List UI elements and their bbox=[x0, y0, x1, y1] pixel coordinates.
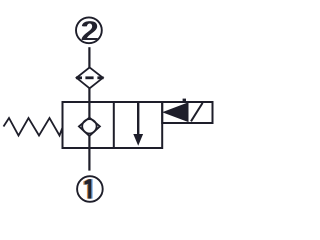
svg-text:2: 2 bbox=[81, 16, 97, 45]
orifice diamond bbox=[77, 67, 103, 88]
port circle 2 bbox=[76, 17, 102, 43]
wire: body to port 1 bbox=[88, 148, 90, 171]
solenoid terminal nub bbox=[183, 99, 186, 103]
port circle 1 bbox=[77, 176, 103, 202]
flow arrow shaft bbox=[137, 102, 139, 136]
solenoid slash bbox=[191, 103, 203, 121]
check valve ball bbox=[82, 119, 96, 133]
port 1 label bbox=[83, 179, 92, 199]
spring bbox=[4, 118, 63, 136]
valve body bbox=[63, 102, 163, 148]
check valve seat diamond bbox=[79, 118, 100, 137]
orifice dash left bbox=[76, 76, 82, 79]
orifice dash right bbox=[97, 76, 103, 79]
orifice dash center bbox=[85, 76, 93, 79]
wire into check valve bbox=[88, 102, 90, 118]
wire: port 2 to orifice bbox=[88, 47, 90, 68]
solenoid armature triangle bbox=[164, 103, 188, 121]
solenoid box bbox=[162, 102, 212, 123]
wire: check valve to body bottom bbox=[88, 136, 90, 148]
wire: orifice to valve body bbox=[88, 88, 90, 102]
position divider bbox=[113, 102, 115, 148]
port 2 label bbox=[80, 16, 99, 45]
flow arrow head bbox=[133, 134, 143, 146]
